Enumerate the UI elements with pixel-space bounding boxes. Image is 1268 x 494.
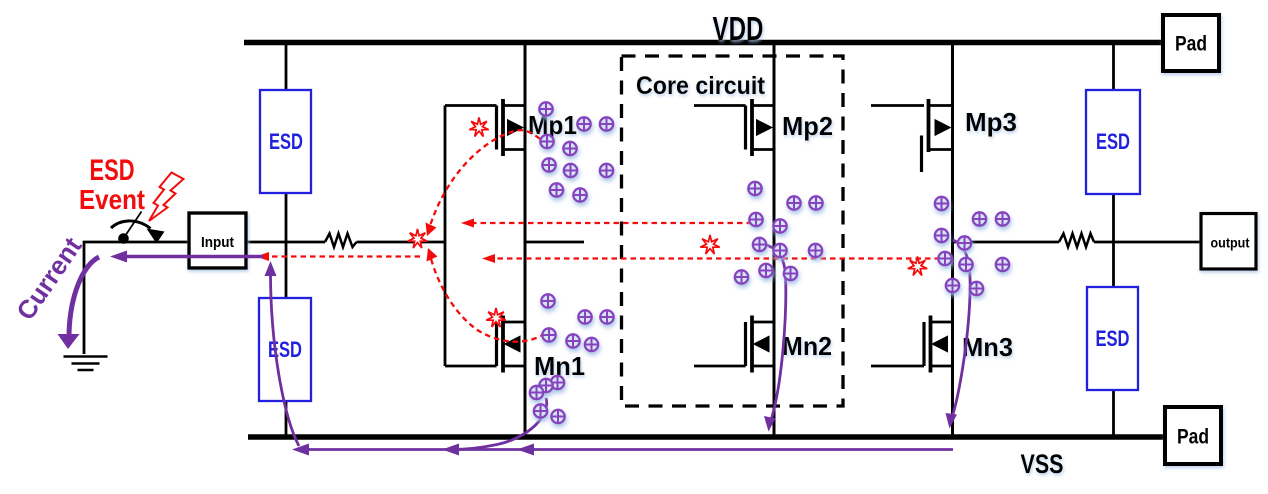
- red arrowhead arc2: [427, 248, 438, 262]
- star near Mp1: [469, 118, 488, 137]
- Mn2 gate feed: [694, 365, 746, 368]
- red arrowhead A: [461, 219, 474, 228]
- inverter2 trunk: [773, 42, 776, 437]
- ion charges cluster in core circuit: [748, 182, 761, 195]
- input wire segments: [246, 241, 325, 244]
- output wire: [953, 241, 1060, 244]
- Mp2 gate feed: [694, 104, 746, 107]
- ground feed wire: [84, 242, 189, 354]
- red arrowhead arc1: [426, 223, 437, 237]
- star near Mn3: [908, 257, 927, 276]
- resistor R1: [325, 234, 357, 248]
- svg-text:ESD: ESD: [1096, 326, 1130, 351]
- ion charges cluster near Mn1: [541, 294, 554, 307]
- svg-text:Event: Event: [79, 184, 145, 215]
- left vertical rail segments: [285, 42, 288, 437]
- transistor Mn2: [746, 316, 775, 373]
- svg-text:Pad: Pad: [1175, 33, 1207, 56]
- Mn3 gate feed: [871, 365, 924, 368]
- star near Mn1: [486, 308, 505, 327]
- svg-text:Pad: Pad: [1177, 426, 1209, 449]
- switch node dot: [118, 233, 129, 244]
- inverter3 trunk: [951, 42, 954, 437]
- svg-text:VDD: VDD: [713, 10, 764, 47]
- inverter1 drain stub: [525, 241, 584, 244]
- red arc from Mn1: [430, 253, 546, 342]
- purple input arrow line: [116, 255, 263, 258]
- Input box: [189, 213, 246, 268]
- wire resistor2 to output box: [1094, 241, 1201, 244]
- svg-text:Mp2: Mp2: [782, 111, 833, 141]
- svg-text:Input: Input: [201, 234, 234, 251]
- Mp3 gate feed: [871, 104, 924, 107]
- switch lever: [123, 212, 142, 240]
- ESD box bottom-left: [259, 298, 311, 401]
- svg-text:Mn2: Mn2: [782, 331, 832, 361]
- purple Current big arrow: [69, 257, 99, 334]
- svg-text:Mp3: Mp3: [965, 107, 1017, 137]
- svg-text:VSS: VSS: [1021, 449, 1064, 479]
- output box: [1201, 214, 1256, 270]
- Pad box top: [1163, 15, 1219, 71]
- purple arrowhead up at input: [265, 261, 277, 276]
- svg-text:output: output: [1211, 236, 1250, 251]
- purple arrowhead down Mn3: [946, 413, 958, 429]
- purple arrowhead left at input line: [110, 251, 127, 263]
- purple curve from Mn1: [452, 398, 547, 450]
- purple arrowhead down Mn2: [764, 416, 776, 432]
- lightning bolt: [149, 173, 184, 222]
- svg-text:ESD: ESD: [1096, 129, 1130, 154]
- red arrow B (y=258.5): [488, 257, 940, 259]
- purple curve from ESD bottom-left: [270, 268, 299, 446]
- ESD box bottom-right: [1087, 287, 1138, 390]
- purple arrowhead bottom 1: [292, 444, 309, 456]
- red arrow A (y=223): [467, 222, 752, 224]
- transistor Mn1: [497, 316, 526, 373]
- transistor Mp3: [922, 99, 953, 172]
- svg-text:ESD: ESD: [269, 129, 303, 154]
- purple curve from Mn2: [762, 244, 786, 425]
- ion charges cluster near Mn3: [935, 197, 948, 210]
- ion charges cluster near Mp1: [539, 102, 552, 115]
- VSS rail: [248, 434, 1165, 440]
- switch arc arrow: [111, 221, 151, 229]
- svg-text:ESD: ESD: [90, 154, 135, 187]
- svg-text:Mn3: Mn3: [962, 332, 1013, 362]
- inverter1 gate bus: [445, 106, 497, 367]
- star in core circuit: [700, 235, 719, 254]
- red arrowhead B: [482, 254, 495, 263]
- red arrow C (y=256.5): [262, 255, 420, 257]
- Pad box bottom: [1165, 407, 1221, 464]
- red arc from Mp1: [429, 130, 547, 229]
- inverter1 trunk: [524, 42, 527, 437]
- purple curve from Mn3: [951, 240, 971, 422]
- VDD rail: [244, 40, 1163, 46]
- red arrowhead C: [256, 252, 269, 261]
- star at input node: [408, 229, 427, 248]
- transistor Mn3: [924, 316, 953, 373]
- wire resistor to gate bus: [357, 241, 446, 244]
- purple arrowhead bottom 3: [517, 444, 534, 456]
- core circuit dashed box: [622, 56, 844, 406]
- purple arrowhead down Current: [58, 334, 80, 349]
- transistor Mp1: [497, 99, 526, 156]
- resistor R2: [1059, 234, 1094, 248]
- right vertical rail segments: [1112, 42, 1115, 437]
- svg-text:Core circuit: Core circuit: [636, 72, 766, 100]
- transistor Mp2: [746, 99, 775, 156]
- purple bottom long arrow: [298, 448, 953, 451]
- purple arrowhead bottom 2: [442, 444, 459, 456]
- ESD box top-left: [260, 90, 311, 193]
- ESD box top-right: [1086, 90, 1140, 194]
